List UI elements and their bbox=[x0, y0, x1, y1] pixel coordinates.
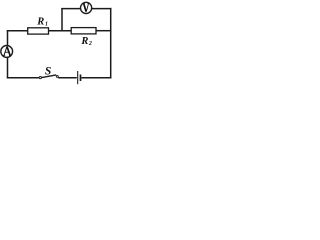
wire R2 to right edge bbox=[96, 30, 111, 32]
svg-text:R: R bbox=[36, 17, 44, 28]
wire left vertical lower bbox=[7, 57, 9, 79]
wire right vertical bbox=[110, 8, 112, 79]
node junction voltmeter branch bbox=[61, 8, 63, 31]
wire bottom-right horizontal bbox=[81, 77, 111, 79]
wire voltmeter branch horizontal left bbox=[61, 8, 80, 10]
switch S bbox=[39, 75, 58, 79]
voltmeter V bbox=[81, 2, 92, 13]
ammeter A bbox=[1, 46, 13, 58]
wire between R1 and R2 bbox=[49, 30, 72, 32]
svg-text:R: R bbox=[80, 36, 88, 47]
resistor R2 bbox=[71, 28, 96, 34]
wire left vertical upper bbox=[7, 30, 9, 46]
svg-text:S: S bbox=[45, 65, 51, 77]
battery cell bbox=[78, 71, 81, 84]
svg-text:1: 1 bbox=[45, 21, 48, 27]
label R2 bbox=[80, 36, 92, 47]
wire bottom-left horizontal bbox=[7, 77, 40, 79]
wire top-left horizontal bbox=[7, 30, 28, 32]
resistor R1 bbox=[28, 28, 49, 34]
wire bottom-middle horizontal bbox=[58, 77, 77, 79]
svg-text:2: 2 bbox=[88, 41, 92, 47]
label R1 bbox=[36, 17, 48, 28]
wire voltmeter branch horizontal right bbox=[91, 8, 111, 10]
